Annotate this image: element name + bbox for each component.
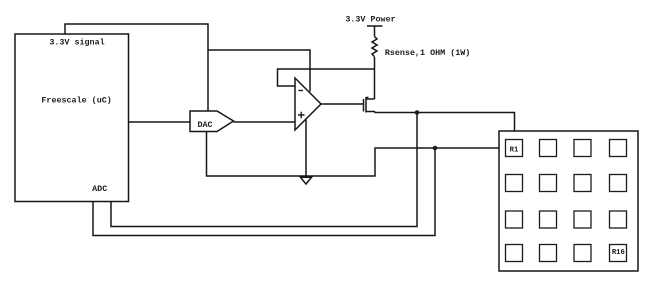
- transistor Q1 channel bar: [366, 97, 369, 113]
- ground rail wire: DAC bottom to resistor array left: [207, 132, 500, 177]
- resistor array pad R2: [540, 140, 557, 157]
- resistor array pad R9: [506, 211, 523, 228]
- svg-text:ADC: ADC: [92, 184, 107, 194]
- wire drain up to resistor: [374, 57, 376, 99]
- resistor array pad R14: [540, 245, 557, 262]
- wire uC right pin to DAC input: [129, 121, 191, 123]
- svg-text:Freescale (uC): Freescale (uC): [41, 96, 111, 106]
- resistor array pad R13: [506, 245, 523, 262]
- feedback wire from drain node to inverting input: [278, 69, 375, 86]
- junction node at MOSFET source: [415, 110, 420, 115]
- resistor array module body: [499, 131, 638, 271]
- ground symbol: [301, 177, 312, 184]
- wire DAC output to op-amp non-inverting input: [234, 121, 296, 123]
- op-amp inverting input label: [299, 90, 304, 92]
- transistor Q1 drain lead: [366, 98, 375, 100]
- Freescale microcontroller U1: [15, 34, 129, 202]
- svg-text:R16: R16: [612, 249, 625, 257]
- wire op-amp plus side to ground rail: [305, 120, 307, 177]
- resistor Rsense zigzag: [372, 37, 377, 57]
- resistor array pad R12: [610, 211, 627, 228]
- op-amp U2: [295, 78, 321, 130]
- resistor array pad R5: [506, 175, 523, 192]
- resistor array pad R8: [610, 175, 627, 192]
- 3.3V power rail bar: [367, 25, 383, 27]
- resistor array pad R4: [610, 140, 627, 157]
- wire op-amp output to MOSFET gate: [321, 103, 363, 105]
- svg-text:3.3V Power: 3.3V Power: [345, 15, 395, 25]
- wire MOSFET source to resistor array top: [375, 113, 515, 132]
- resistor array pad R3: [574, 140, 591, 157]
- resistor array pad R16: [610, 245, 627, 262]
- resistor array pad R15: [574, 245, 591, 262]
- svg-text:R1: R1: [510, 147, 519, 155]
- resistor array pad R6: [540, 175, 557, 192]
- resistor array pad R10: [540, 211, 557, 228]
- resistor array pad R7: [574, 175, 591, 192]
- op-amp non-inverting input label: [298, 112, 305, 118]
- transistor Q1 source lead: [366, 112, 375, 113]
- wire source node down to ADC pin 2: [111, 113, 417, 227]
- DAC D1: [190, 111, 234, 132]
- resistor array pad R11: [574, 211, 591, 228]
- wire resistor to power rail: [374, 26, 376, 37]
- svg-text:DAC: DAC: [197, 120, 212, 130]
- svg-text:Rsense,1 OHM (1W): Rsense,1 OHM (1W): [385, 48, 470, 58]
- wire uC top pin to DAC top pin: [65, 24, 208, 111]
- svg-text:3.3V signal: 3.3V signal: [49, 38, 104, 48]
- wire branch to op-amp inverting side: [208, 50, 310, 92]
- junction node on ground rail: [433, 146, 438, 151]
- resistor array pad R1: [506, 140, 523, 157]
- transistor Q1 gate bar: [363, 99, 365, 112]
- wire ground rail node down to ADC pin 1: [93, 148, 435, 236]
